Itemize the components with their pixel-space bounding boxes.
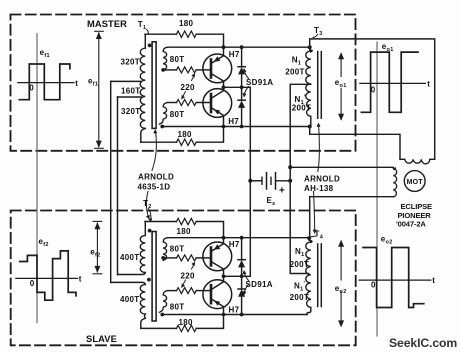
- diode D3 (SD91A upper slave): [238, 238, 245, 277]
- T3 bottom jog wire to motor winding: [310, 127, 400, 160]
- Q2 base wire with 220 resistor: [168, 102, 177, 104]
- svg-text:160T: 160T: [121, 87, 140, 96]
- svg-text:80T: 80T: [170, 303, 185, 312]
- leader arrow T1 label: [147, 30, 149, 35]
- svg-text:0: 0: [30, 279, 35, 288]
- svg-text:200T: 200T: [290, 260, 309, 269]
- T3 top jog wire to motor line: [310, 39, 435, 159]
- motor top phase winding: [400, 158, 435, 160]
- diode D1 (SD91A upper master): [238, 47, 245, 87]
- slave bottom emitter rail wire to T4: [162, 314, 307, 316]
- diode D4 (SD91A lower slave): [238, 276, 245, 314]
- motor left phase winding: [290, 167, 395, 169]
- master dashed enclosure box: [11, 15, 356, 151]
- transformer T1 primary winding (320T/160T/320T): [144, 34, 146, 48]
- leader arrow 220 master upper: [192, 75, 195, 81]
- svg-text:200T: 200T: [285, 68, 304, 77]
- svg-text:80T: 80T: [170, 110, 185, 119]
- svg-text:200T: 200T: [292, 103, 311, 112]
- svg-text:320T: 320T: [121, 58, 140, 67]
- transistor Q2 (H7, PNP lower master): [203, 87, 232, 126]
- svg-text:'0047-2A: '0047-2A: [396, 220, 426, 229]
- T1 secondary upper 80T winding: [163, 47, 168, 70]
- svg-text:SLAVE: SLAVE: [86, 334, 117, 344]
- leader arrow T3 label: [313, 35, 318, 38]
- bottom emitter rail wire to T3: [162, 126, 309, 128]
- junction dot 80T upper / base wire: [161, 68, 165, 72]
- leader arrow ARNOLD 4635-1D down to T2: [146, 192, 148, 218]
- svg-text:ARNOLD: ARNOLD: [138, 173, 174, 182]
- leader arrow ARNOLD AH-138 down to T4: [314, 192, 315, 232]
- Q1 base wire with 220 resistor: [163, 69, 176, 71]
- wire tap1 down to T2 tap: [110, 81, 112, 282]
- supply wire mid rail down to battery minus: [249, 87, 251, 181]
- svg-text:180: 180: [179, 318, 193, 327]
- leader arrow 220 slave lower: [182, 280, 186, 287]
- dimension arrow e_f2 across T2 primary: [93, 221, 102, 273]
- svg-text:220: 220: [181, 271, 195, 280]
- dimension arrow e_o2 across T4: [340, 241, 342, 280]
- svg-text:0: 0: [371, 281, 376, 290]
- T2 core: [152, 232, 156, 322]
- wire rail to Q1 emitter corner: [196, 34, 223, 47]
- transistor Q1 (H7, PNP upper master): [203, 47, 232, 87]
- wire tap2 down to T2 upper stub: [117, 97, 119, 275]
- resistor R-180 top slave: [177, 218, 197, 224]
- resistor R-180 bottom master: [177, 139, 197, 145]
- svg-text:ARNOLD: ARNOLD: [304, 175, 340, 184]
- resistor R-180 top master: [177, 31, 197, 37]
- svg-text:+: +: [279, 186, 285, 197]
- slave dashed enclosure box: [11, 211, 356, 346]
- waveform e_f2 axes: [16, 277, 78, 279]
- T2 phasing dot mid: [147, 278, 151, 282]
- T1 tap wire lower (160T/320T junction): [118, 96, 142, 98]
- T1 primary top rail with resistor 180 (wire): [145, 33, 177, 35]
- svg-text:AH-138: AH-138: [304, 184, 334, 193]
- T1 tap wire upper (320T/160T junction): [111, 80, 141, 82]
- leader arrow ARNOLD AH-138 up to T3: [318, 125, 320, 172]
- svg-text:H7: H7: [229, 240, 240, 249]
- T1 secondary lower 80T winding: [160, 103, 169, 125]
- svg-text:400T: 400T: [120, 253, 139, 262]
- T1 core: [152, 42, 156, 129]
- battery Es: [250, 173, 290, 189]
- T3 core: [317, 52, 319, 119]
- transistor Q4 (H7, PNP lower slave): [203, 276, 232, 314]
- SD91A leader arrows slave: [244, 272, 249, 281]
- svg-text:t: t: [79, 275, 82, 284]
- svg-text:t: t: [427, 80, 430, 89]
- svg-text:180: 180: [177, 227, 191, 236]
- slave top emitter rail wire to T4: [168, 237, 309, 239]
- junction dots on top rail: [222, 45, 226, 49]
- svg-text:400T: 400T: [120, 295, 139, 304]
- SD91A leader arrows master: [244, 70, 249, 79]
- slave bottom rail 2 with resistor 180: [141, 327, 177, 329]
- Q1/Q2 collector mid rail: [224, 86, 251, 88]
- motor MOT circle: [404, 171, 425, 192]
- T1 phasing dot: [148, 44, 152, 48]
- svg-text:SD91A: SD91A: [246, 280, 273, 289]
- svg-text:0: 0: [29, 84, 34, 93]
- T4 core: [317, 244, 319, 307]
- svg-text:H7: H7: [229, 50, 240, 59]
- T2 secondary upper 80T winding: [163, 238, 168, 261]
- leader arrow ARNOLD 4635-1D up to T1: [152, 131, 156, 171]
- svg-text:t: t: [432, 276, 435, 285]
- axis construction line left (e_f1/e_f2 time axis): [36, 34, 38, 323]
- svg-text:220: 220: [181, 83, 195, 92]
- svg-text:t: t: [75, 79, 78, 88]
- bottom rail 2 with resistor 180 (master): [141, 141, 177, 143]
- svg-text:H7: H7: [229, 305, 240, 314]
- axis construction line right (e_o1/e_o2 time axis): [376, 42, 378, 336]
- T2 primary top rail with resistor 180 (wire): [145, 221, 177, 223]
- svg-text:ECLIPSE: ECLIPSE: [401, 202, 433, 211]
- dimension arrow e_f1 across T1 primary: [95, 31, 104, 148]
- leader arrow T4 label: [312, 235, 316, 238]
- T2 secondary lower 80T winding: [160, 291, 169, 313]
- waveform e_o1 square wave: [361, 52, 418, 112]
- waveform e_f1 square wave: [19, 64, 70, 100]
- junction dot 80T lower / emitter rail: [160, 125, 164, 129]
- svg-text:SeekIC.com: SeekIC.com: [389, 336, 457, 350]
- T3 center tap wire and battery plus line down to T4 tap: [290, 84, 311, 273]
- transformer T2 primary winding (400T/400T): [144, 222, 146, 236]
- junction dots on bottom rail: [222, 125, 226, 129]
- Q3 base wire with 220 resistor: [163, 257, 176, 259]
- resistor R-180 bottom slave: [177, 325, 197, 331]
- supply wire battery minus down to slave mid rail: [249, 181, 251, 276]
- top emitter rail wire to T3: [168, 46, 310, 48]
- leader arrow 220 master lower: [182, 92, 186, 99]
- junction dot 80T upper slave: [161, 256, 165, 260]
- transistor Q3 (H7, PNP upper slave): [203, 238, 232, 277]
- transformer T3 winding N1/N1': [310, 47, 313, 52]
- transformer T4 winding N1/N1': [309, 238, 312, 242]
- Q4 base wire with 220 resistor: [168, 290, 177, 292]
- svg-text:H7: H7: [228, 117, 239, 126]
- waveform e_o2 axes: [359, 279, 431, 281]
- svg-text:80T: 80T: [170, 245, 185, 254]
- svg-text:200T: 200T: [290, 293, 309, 302]
- leader arrow T2 label: [149, 209, 151, 221]
- svg-text:MOT: MOT: [407, 179, 424, 186]
- waveform e_f2 stepped wave: [20, 251, 76, 300]
- diode D2 (SD91A lower master): [238, 87, 245, 126]
- svg-text:0: 0: [371, 86, 376, 95]
- svg-text:MASTER: MASTER: [87, 19, 127, 29]
- junction dot 80T lower slave: [160, 313, 164, 317]
- dimension arrow e_o1 across T3: [340, 54, 342, 77]
- Q3/Q4 collector mid rail slave: [224, 275, 251, 277]
- svg-text:SD91A: SD91A: [246, 78, 273, 87]
- leader arrow 220 slave upper: [192, 264, 195, 270]
- T2 phasing dot top: [148, 229, 152, 233]
- svg-text:180: 180: [179, 19, 193, 28]
- svg-text:80T: 80T: [170, 55, 185, 64]
- svg-text:320T: 320T: [121, 107, 140, 116]
- svg-text:180: 180: [178, 130, 192, 139]
- waveform e_o2 square wave: [363, 248, 424, 308]
- waveform e_o1 axes: [360, 82, 426, 84]
- waveform e_f1 axes: [18, 82, 74, 84]
- svg-text:4635-1D: 4635-1D: [138, 182, 171, 191]
